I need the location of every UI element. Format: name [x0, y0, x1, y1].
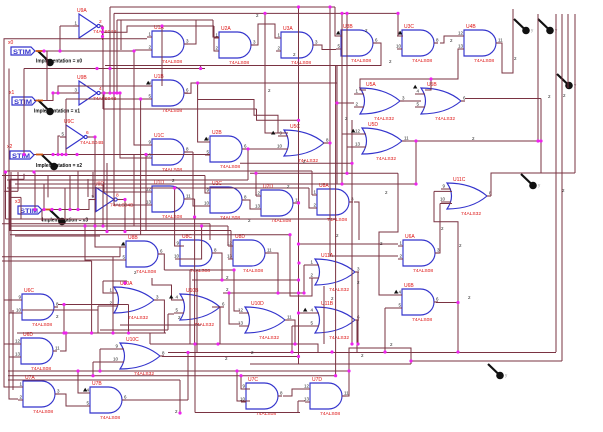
- wire maze v9: [64, 188, 66, 219]
- AND gate U3C 74ALS08: [396, 24, 439, 64]
- marker on net x2: [42, 155, 58, 170]
- svg-text:74ALS08: 74ALS08: [412, 317, 432, 323]
- inverter U9D 74ALS04: [90, 182, 133, 212]
- wire drop x0bar: [120, 20, 122, 50]
- pin arrow: [336, 31, 340, 35]
- junction: [83, 224, 86, 227]
- svg-text:U6B: U6B: [404, 283, 414, 289]
- junction: [42, 49, 45, 52]
- wire bus y270: [164, 269, 234, 271]
- junction: [276, 291, 279, 294]
- svg-text:U8B: U8B: [128, 235, 138, 241]
- junction: [414, 182, 417, 185]
- wire U11A pin2 path: [290, 235, 319, 296]
- wire U10C pin9: [100, 348, 114, 350]
- marker on net x3: [50, 210, 66, 225]
- wire to U7C pin9: [241, 376, 250, 389]
- wire U9D output: [120, 199, 125, 201]
- junction: [51, 91, 54, 94]
- wire to U2C pin9: [205, 176, 207, 194]
- svg-text:U11B: U11B: [321, 301, 334, 307]
- junction: [193, 342, 196, 345]
- junction: [297, 311, 300, 314]
- wire long vertical V298: [298, 7, 300, 364]
- svg-text:10: 10: [440, 197, 446, 202]
- wire U9B output: [103, 92, 121, 94]
- junction: [33, 208, 36, 211]
- junction: [118, 91, 121, 94]
- wire x1bar to U1D pin12: [104, 93, 147, 192]
- wire x3bar drop: [124, 200, 126, 232]
- junction: [123, 198, 126, 201]
- wire maze h3: [9, 196, 21, 198]
- svg-text:13: 13: [355, 142, 361, 147]
- wire U8A output drop: [354, 202, 359, 240]
- svg-text:U3A: U3A: [283, 26, 293, 32]
- wire V562 right rail: [561, 14, 563, 361]
- svg-text:U6A: U6A: [405, 234, 415, 240]
- wire stim stub: [36, 154, 43, 156]
- wire bus y333: [17, 332, 166, 334]
- wire T2 drop to U3C pin9: [398, 13, 403, 36]
- svg-text:13: 13: [458, 44, 464, 49]
- AND gate U8C 74ALS08: [174, 234, 217, 274]
- junction: [101, 35, 104, 38]
- AND gate U3A 74ALS08: [276, 26, 318, 66]
- wire U2B out to U5C pin10: [244, 148, 288, 150]
- wire U9C output: [90, 136, 95, 138]
- svg-text:U10D: U10D: [251, 301, 264, 307]
- wire U5D out to bus 184: [415, 141, 417, 184]
- AND gate U4B 74ALS08: [458, 24, 503, 64]
- junction: [340, 12, 343, 15]
- wire U7D pin13: [298, 400, 305, 402]
- wire branch V103: [102, 26, 104, 109]
- svg-text:Implementation = x0: Implementation = x0: [36, 59, 82, 65]
- wire U2D output: [295, 202, 299, 204]
- wire net T2 top bus: [114, 12, 398, 14]
- wire riser to U5D pin12: [342, 13, 356, 134]
- junction: [246, 147, 249, 150]
- svg-text:U3C: U3C: [404, 24, 414, 30]
- wire maze v4: [17, 172, 19, 191]
- junction: [98, 369, 101, 372]
- junction: [91, 374, 94, 377]
- wire bus y280: [192, 279, 299, 281]
- wire vertical V194 long: [194, 199, 196, 344]
- wire left rail V4 and U1A pin1 line: [4, 39, 147, 387]
- wire bottom line y412: [195, 412, 300, 414]
- wire U10B pin5: [168, 313, 174, 315]
- svg-text:11: 11: [287, 315, 292, 320]
- wire net T4 bus: [103, 26, 214, 32]
- wire U10A pin2: [98, 305, 108, 307]
- wire bus P right: [168, 352, 556, 354]
- wire U6C pin9: [4, 299, 17, 301]
- wire V24: [23, 69, 25, 155]
- svg-text:74ALS08: 74ALS08: [162, 167, 182, 173]
- wire bus y223: [2, 223, 210, 225]
- junction: [199, 67, 202, 70]
- wire left rail V9: [9, 69, 18, 400]
- wire x0 to U1C pin9: [134, 51, 147, 145]
- svg-text:74ALS08: 74ALS08: [243, 268, 263, 274]
- wire B2 to U8D pin13: [228, 231, 231, 260]
- wire U2C out to U2D pin13: [244, 200, 256, 209]
- junction: [297, 278, 300, 281]
- wire bottom bus y375: [8, 375, 336, 377]
- OR gate U11C 74ALS32: [440, 177, 492, 217]
- junction: [64, 153, 67, 156]
- AND gate U1B 74ALS08: [147, 74, 189, 114]
- wire V91 drop: [91, 261, 93, 333]
- svg-text:74ALS32: 74ALS32: [435, 116, 455, 122]
- wire x2 to U9C input: [58, 136, 60, 155]
- probe P4: [521, 174, 541, 189]
- junction: [297, 291, 300, 294]
- wire x0 branch up: [59, 26, 61, 51]
- svg-text:U1B: U1B: [154, 74, 164, 80]
- wire net x3: [42, 200, 90, 210]
- junction: [297, 261, 300, 264]
- svg-text:74ALS32: 74ALS32: [329, 335, 349, 341]
- wire riser T3 long: [116, 20, 118, 93]
- junction: [108, 91, 111, 94]
- AND gate U7A 74ALS08: [18, 375, 60, 415]
- wire U11C pin9: [434, 190, 452, 192]
- wire: [119, 247, 121, 257]
- wire vertical V197: [196, 270, 198, 353]
- wire U7C out to U7D pin12: [283, 389, 305, 396]
- wire U6C out drop a: [63, 305, 65, 334]
- wire U1A pin2: [134, 49, 147, 51]
- svg-text:U2B: U2B: [212, 130, 222, 136]
- junction: [297, 355, 300, 358]
- wire bus y109: [103, 108, 257, 110]
- wire vertical V113: [112, 257, 114, 333]
- junction: [101, 26, 104, 29]
- junction: [50, 208, 53, 211]
- wire U4B output to probe net: [500, 9, 513, 73]
- wire V541 upper: [540, 99, 542, 142]
- svg-text:74ALS08: 74ALS08: [100, 415, 120, 421]
- AND gate U7D 74ALS08: [304, 377, 349, 417]
- wire U8C out drop to bus280: [216, 253, 222, 280]
- svg-text:13: 13: [146, 200, 152, 205]
- OR gate U5C 74ALS32: [277, 124, 329, 164]
- wire mid bus y180: [7, 179, 248, 181]
- junction: [111, 331, 114, 334]
- wire U6D output riser: [60, 333, 66, 351]
- wire U10C pin10: [93, 361, 114, 363]
- wire U6D pin13: [9, 356, 16, 358]
- junction: [22, 153, 25, 156]
- junction: [51, 153, 54, 156]
- svg-text:12: 12: [355, 129, 361, 134]
- junction: [112, 91, 115, 94]
- wire U2A output to U3A pin1: [255, 24, 276, 45]
- wire bus B2 y230: [9, 230, 231, 232]
- junction: [216, 342, 219, 345]
- wire U10C output long: [162, 356, 299, 358]
- svg-text:74ALS08: 74ALS08: [413, 268, 433, 274]
- pin arrow: [83, 388, 87, 392]
- junction: [539, 139, 542, 142]
- svg-text:6: 6: [86, 130, 89, 136]
- digital stimulus x0: [8, 40, 35, 56]
- svg-text:74ALS32: 74ALS32: [461, 211, 481, 217]
- svg-text:U7D: U7D: [312, 377, 322, 383]
- wire marker stub: [41, 210, 43, 222]
- svg-text:74ALS08: 74ALS08: [351, 58, 371, 64]
- digital stimulus x3: [15, 199, 42, 215]
- wire vertical V140: [140, 99, 142, 235]
- junction: [350, 342, 353, 345]
- digital stimulus x1: [9, 90, 36, 106]
- wire maze h1: [10, 178, 24, 180]
- junction: [347, 369, 350, 372]
- svg-text:10: 10: [174, 254, 180, 259]
- probe P3: [557, 74, 577, 89]
- wire U5C output: [323, 142, 330, 144]
- wire U3B output long loop: [105, 43, 381, 66]
- wire U1C output: [188, 151, 193, 153]
- wire net x2: [34, 154, 210, 156]
- AND gate U1C 74ALS08: [146, 133, 189, 173]
- junction: [123, 230, 126, 233]
- junction: [254, 172, 257, 175]
- wire U10A pin1: [103, 281, 108, 293]
- wire to U8C pin10: [175, 226, 202, 259]
- wire y261 bus: [2, 260, 92, 262]
- junction: [93, 224, 96, 227]
- junction: [297, 242, 300, 245]
- wire: [227, 245, 229, 247]
- wire maze v15: [106, 163, 108, 232]
- junction: [356, 342, 359, 345]
- wire y257 bus: [2, 256, 120, 258]
- wire vertical V337: [336, 66, 338, 185]
- wire U11A pin1: [304, 264, 319, 266]
- wire U11A pin1 drop: [303, 265, 305, 293]
- junction: [239, 374, 242, 377]
- pin arrow: [351, 129, 355, 133]
- wire x2bar drop to U8B pin4: [95, 137, 121, 247]
- wire drop: [291, 326, 293, 352]
- wire V568: [567, 14, 569, 88]
- junction: [60, 153, 63, 156]
- svg-text:74ALS08: 74ALS08: [412, 58, 432, 64]
- svg-text:13: 13: [227, 254, 233, 259]
- wire x1bar to U1C pin10: [120, 93, 147, 158]
- svg-text:U4B: U4B: [466, 24, 476, 30]
- wire to U6B pin4: [379, 173, 398, 295]
- junction: [196, 81, 199, 84]
- wire U6C output: [58, 304, 129, 306]
- wire U6D pin12: [4, 343, 16, 345]
- wire U11C pin10: [440, 203, 452, 205]
- wire bus y364: [250, 363, 411, 365]
- junction: [288, 233, 291, 236]
- wire drop: [99, 349, 101, 371]
- svg-text:U9B: U9B: [77, 75, 87, 81]
- svg-text:U10A: U10A: [120, 281, 133, 287]
- svg-text:74ALS08: 74ALS08: [256, 411, 276, 417]
- wire B1 to U8D pin12: [227, 226, 229, 246]
- svg-text:74ALS08: 74ALS08: [33, 409, 53, 415]
- wire mid bus y175: [2, 175, 205, 177]
- junction: [350, 162, 353, 165]
- svg-text:U6C: U6C: [24, 288, 34, 294]
- junction: [101, 224, 104, 227]
- svg-text:12: 12: [146, 187, 152, 192]
- wire U7B output: [123, 399, 188, 401]
- svg-text:11: 11: [498, 38, 503, 43]
- junction: [101, 30, 104, 33]
- junction: [297, 201, 300, 204]
- wire U1A output riser: [188, 20, 196, 44]
- AND gate U1D 74ALS08: [146, 180, 191, 220]
- wire U7A out to U7B pin5: [59, 394, 85, 406]
- svg-text:U5A: U5A: [366, 82, 376, 88]
- inverter U9A 74ALS04: [73, 8, 116, 38]
- wire staircase B: [198, 100, 278, 134]
- junction: [340, 182, 343, 185]
- wire U5D output long: [406, 141, 541, 173]
- wire rail V13: [12, 310, 14, 390]
- junction: [335, 101, 338, 104]
- junction: [396, 12, 399, 15]
- wire U4B pin13 to U5A pin1 loop: [360, 49, 459, 90]
- wire bus y163: [240, 162, 352, 164]
- wire drop to U5B pin4: [425, 79, 431, 90]
- wire net T1 top bus: [110, 6, 335, 8]
- AND gate U8A 74ALS08: [312, 183, 354, 223]
- svg-text:U3B: U3B: [343, 24, 353, 30]
- wire net x1: [34, 93, 73, 101]
- OR gate U10D 74ALS32: [238, 301, 292, 341]
- junction: [127, 331, 130, 334]
- svg-text:STIM: STIM: [13, 49, 31, 56]
- wire U6B pin5: [385, 307, 397, 309]
- svg-text:U2D: U2D: [263, 184, 273, 190]
- svg-text:74ALS08: 74ALS08: [220, 164, 240, 170]
- junction: [297, 119, 300, 122]
- wire vertical V190: [189, 270, 191, 344]
- junction: [235, 369, 238, 372]
- junction: [68, 208, 71, 211]
- wire V575: [574, 14, 576, 173]
- svg-text:74ALS32: 74ALS32: [259, 335, 279, 341]
- wire drop to x2: [65, 99, 67, 155]
- probe P5: [488, 364, 508, 379]
- junction: [102, 91, 105, 94]
- wire U6A out to U11C pin10: [436, 204, 440, 254]
- wire stim stub: [36, 50, 43, 52]
- OR gate U11B 74ALS32: [309, 301, 360, 341]
- wire vertical V324: [323, 286, 325, 344]
- wire to U7B pin4: [78, 371, 85, 393]
- wire maze v8: [47, 176, 49, 198]
- wire vertical V146: [145, 155, 147, 231]
- wire T3 drop to U2A pin1: [213, 20, 219, 37]
- junction: [173, 186, 176, 189]
- marker on net x0: [38, 51, 54, 66]
- AND gate U6D 74ALS08: [15, 332, 60, 372]
- svg-text:Implementation = x2: Implementation = x2: [36, 163, 82, 169]
- junction: [456, 350, 459, 353]
- svg-text:11: 11: [404, 136, 409, 141]
- wire step: [298, 163, 300, 185]
- AND gate U6A 74ALS08: [398, 234, 440, 274]
- junction: [132, 49, 135, 52]
- wire U6C pin10: [9, 312, 17, 314]
- wire B1 to U8B pin5: [85, 226, 121, 260]
- svg-text:74ALS32: 74ALS32: [329, 287, 349, 293]
- wire U11A output drop: [356, 272, 358, 344]
- wire riser to U5C pin9: [265, 13, 288, 133]
- junction: [193, 215, 196, 218]
- wire stub: [103, 280, 127, 282]
- junction: [263, 12, 266, 15]
- AND gate U6C 74ALS08: [16, 288, 59, 328]
- wire bus173 to U2D pin12: [255, 173, 257, 196]
- wire U3A output to U3B pin5: [317, 45, 336, 50]
- pin arrow: [271, 131, 275, 135]
- wire mid bus y188: [7, 187, 309, 189]
- wire vertical V347 ext: [346, 13, 348, 173]
- junction: [108, 67, 111, 70]
- wire U1B pin5: [66, 98, 147, 100]
- junction: [456, 301, 459, 304]
- junction: [200, 224, 203, 227]
- wire to U10D pin12: [234, 270, 240, 311]
- svg-text:U10C: U10C: [126, 337, 139, 343]
- wire U3C output to U4B pin12: [440, 36, 459, 43]
- svg-text:STIM: STIM: [12, 153, 30, 160]
- junction: [232, 268, 235, 271]
- wire bus Q: [411, 360, 562, 362]
- wire U11C pin9 loop down: [434, 191, 458, 352]
- wire stim stub: [44, 209, 51, 211]
- svg-text:74ALS08: 74ALS08: [474, 58, 494, 64]
- wire T4 drop to U2A pin2: [214, 26, 219, 51]
- wire crossing drop to U1B pin4: [161, 26, 163, 86]
- wire drop: [209, 224, 211, 240]
- svg-text:13: 13: [238, 321, 244, 326]
- junction: [186, 351, 189, 354]
- svg-text:12: 12: [458, 31, 464, 36]
- junction: [123, 281, 126, 284]
- AND gate U2A 74ALS08: [214, 26, 256, 66]
- svg-text:U11C: U11C: [453, 177, 466, 183]
- wire bottom bus y371: [8, 370, 349, 372]
- wire bottom bus y380: [8, 379, 180, 381]
- svg-text:U5D: U5D: [368, 122, 378, 128]
- junction: [62, 331, 65, 334]
- wire to U10D pin13: [229, 293, 240, 324]
- wire U10A output drop: [158, 300, 164, 333]
- svg-text:U9A: U9A: [77, 8, 87, 14]
- wire U10B output drop: [212, 307, 220, 344]
- pin arrow: [121, 242, 125, 246]
- wire U6B output: [436, 302, 458, 304]
- pin arrow: [146, 81, 150, 85]
- wire net x0: [35, 50, 134, 52]
- wire vertical V352: [351, 120, 353, 344]
- svg-text:74ALS08: 74ALS08: [320, 411, 340, 417]
- pin arrow: [413, 85, 417, 89]
